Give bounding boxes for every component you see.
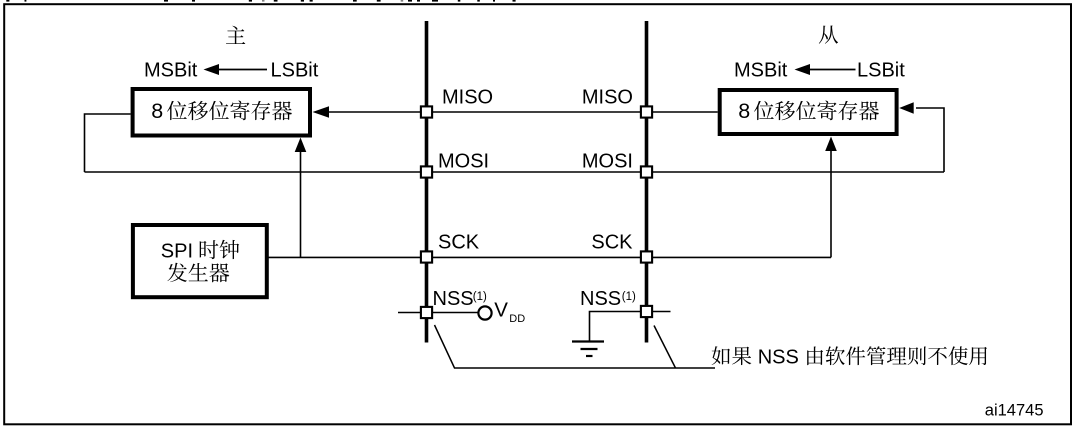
callout leader from slave NSS pin — [654, 326, 676, 369]
pin SCK master — [421, 251, 432, 262]
svg-text:8: 8 — [738, 99, 750, 123]
wire SCK branch up into slave shift register — [830, 151, 832, 257]
label NSS(1) (slave side) — [580, 288, 636, 310]
svg-text:ai14745: ai14745 — [985, 402, 1044, 420]
label LSBit (slave) — [857, 60, 905, 82]
label VDD — [494, 299, 525, 326]
svg-text:MISO: MISO — [582, 87, 633, 109]
wire slave MOSI loop (up, into box right edge) — [916, 108, 944, 172]
slave shift register text: 8 位移位寄存器 — [738, 99, 879, 123]
label: master (zhu) — [226, 26, 245, 44]
arrowhead SCK into slave shift register bottom — [825, 137, 837, 152]
callout note text — [712, 346, 987, 368]
wire NSS master (stub and to VDD) — [398, 312, 479, 314]
label MISO (slave side) — [582, 87, 633, 109]
label NSS(1) (master side) — [433, 288, 488, 310]
svg-text:NSS: NSS — [433, 288, 474, 310]
label MOSI (master side) — [438, 151, 489, 173]
arrowhead SCK into master shift register bottom — [295, 138, 307, 153]
wire master MOSI loop (box left edge, down to MOSI) — [85, 114, 131, 172]
master shift register text: 8 位移位寄存器 — [151, 99, 292, 123]
svg-text:LSBit: LSBit — [271, 60, 319, 82]
cropped caption text remnants (top edge) — [6, 0, 515, 2]
svg-text:MOSI: MOSI — [582, 151, 633, 173]
SPI clock generator text line 1: SPI 时钟 — [161, 240, 239, 263]
pin MOSI master — [421, 166, 432, 177]
svg-text:(1): (1) — [622, 291, 636, 303]
pin NSS master — [421, 307, 432, 318]
svg-text:(1): (1) — [473, 291, 487, 303]
wire MISO (master box to slave box) — [327, 111, 718, 113]
label LSBit (master) — [271, 60, 319, 82]
svg-text:V: V — [494, 299, 508, 322]
arrowhead MISO into master shift register — [313, 106, 330, 118]
svg-text:MSBit: MSBit — [734, 60, 788, 82]
SPI bus line 1 (master pins) — [425, 21, 429, 343]
label MSBit (slave) — [734, 60, 788, 82]
ground symbol — [572, 342, 604, 357]
svg-text:DD: DD — [509, 313, 525, 325]
wire NSS slave (ground wire and stub) — [590, 312, 671, 342]
master MSBit-LSBit shift direction arrow — [204, 64, 268, 75]
master 8-bit shift register box — [133, 89, 310, 136]
callout leader from master NSS pin — [435, 325, 716, 368]
wire SCK row — [268, 256, 831, 258]
svg-text:MSBit: MSBit — [144, 60, 198, 82]
label MOSI (slave side) — [582, 151, 633, 173]
pin NSS slave — [641, 306, 652, 317]
pin SCK slave — [641, 251, 652, 262]
svg-text:NSS: NSS — [580, 288, 621, 310]
svg-text:LSBit: LSBit — [857, 60, 905, 82]
svg-text:MOSI: MOSI — [438, 151, 489, 173]
SPI clock generator box — [133, 225, 267, 297]
label: slave (cong) — [819, 26, 838, 44]
label MISO (master side) — [442, 87, 493, 109]
svg-text:SCK: SCK — [438, 232, 480, 254]
label SCK (slave side) — [591, 232, 633, 254]
svg-text:MISO: MISO — [442, 87, 493, 109]
svg-text:NSS: NSS — [758, 347, 799, 369]
slave 8-bit shift register box — [720, 90, 897, 134]
pin MISO slave — [641, 106, 652, 117]
wire SCK branch up into master shift register — [300, 151, 302, 257]
svg-text:SCK: SCK — [591, 232, 633, 254]
slave MSBit-LSBit shift direction arrow — [795, 64, 856, 75]
pin MOSI slave — [641, 166, 652, 177]
SPI bus line 2 (slave pins) — [645, 21, 649, 343]
wire MOSI row — [85, 171, 945, 173]
svg-text:SPI: SPI — [161, 241, 193, 263]
pin MISO master — [421, 106, 432, 117]
arrowhead MOSI into slave shift register — [899, 102, 914, 113]
svg-text:8: 8 — [151, 99, 163, 123]
label MSBit (master) — [144, 60, 198, 82]
SPI clock generator text line 2: 发生器 — [167, 263, 229, 283]
VDD terminal circle — [478, 306, 491, 319]
label SCK (master side) — [438, 232, 480, 254]
figure id ai14745 — [985, 402, 1044, 420]
